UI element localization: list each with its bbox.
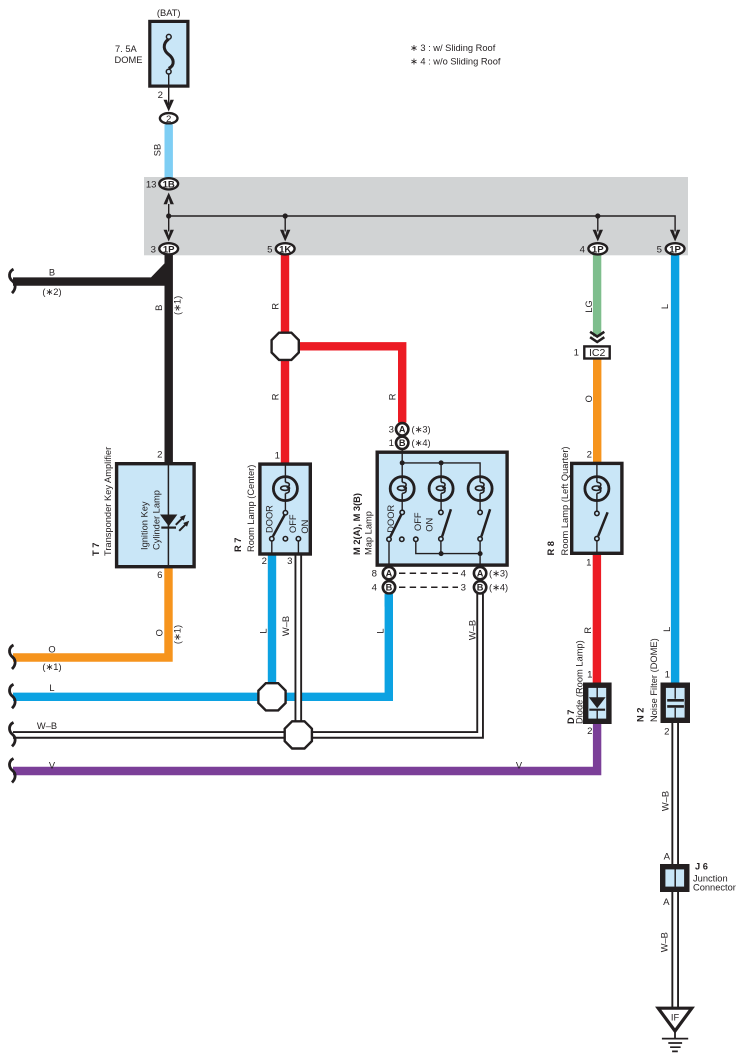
svg-text:O: O <box>584 395 594 402</box>
svg-text:(∗2): (∗2) <box>42 287 61 297</box>
svg-text:(∗1): (∗1) <box>172 296 182 315</box>
svg-text:1K: 1K <box>279 244 291 255</box>
svg-text:ON: ON <box>300 520 310 534</box>
svg-text:3: 3 <box>389 425 394 436</box>
svg-text:W–B: W–B <box>468 620 478 640</box>
svg-text:DOME: DOME <box>115 55 143 65</box>
svg-text:O: O <box>48 645 55 655</box>
svg-text:W–B: W–B <box>37 721 57 731</box>
svg-text:A: A <box>399 425 406 435</box>
svg-text:(∗1): (∗1) <box>42 662 61 672</box>
svg-text:SB: SB <box>153 144 163 156</box>
svg-text:B: B <box>386 583 393 593</box>
svg-text:1: 1 <box>275 451 280 462</box>
svg-text:Connector: Connector <box>693 883 736 893</box>
svg-text:∗ 3 : w/ Sliding Roof: ∗ 3 : w/ Sliding Roof <box>410 43 496 53</box>
svg-text:7. 5A: 7. 5A <box>115 44 138 54</box>
svg-text:V: V <box>49 760 56 770</box>
svg-text:Transponder Key Amplifier: Transponder Key Amplifier <box>103 447 113 556</box>
svg-text:Diode (Room Lamp): Diode (Room Lamp) <box>575 640 585 724</box>
svg-text:OFF: OFF <box>413 512 423 531</box>
svg-text:DOOR: DOOR <box>386 505 396 533</box>
svg-text:W–B: W–B <box>281 616 291 636</box>
svg-text:B: B <box>154 305 164 311</box>
svg-text:A: A <box>663 897 670 908</box>
svg-text:2: 2 <box>587 450 592 461</box>
svg-text:Ignition Key: Ignition Key <box>140 501 150 550</box>
svg-text:Map Lamp: Map Lamp <box>364 511 374 555</box>
svg-text:5: 5 <box>657 244 662 255</box>
svg-text:W–B: W–B <box>659 932 669 952</box>
svg-text:1P: 1P <box>592 244 604 255</box>
svg-text:2: 2 <box>664 727 669 738</box>
svg-text:A: A <box>664 852 671 863</box>
svg-text:OFF: OFF <box>288 514 298 533</box>
svg-text:2: 2 <box>587 726 592 737</box>
svg-text:3: 3 <box>461 583 466 594</box>
svg-text:8: 8 <box>372 569 377 580</box>
svg-text:(∗4): (∗4) <box>412 438 431 448</box>
svg-text:2: 2 <box>157 450 162 461</box>
svg-text:(∗3): (∗3) <box>412 425 431 435</box>
svg-text:LG: LG <box>584 300 594 312</box>
svg-text:3: 3 <box>151 244 156 255</box>
svg-text:B: B <box>399 438 406 448</box>
svg-text:R 8: R 8 <box>546 541 556 555</box>
svg-text:1: 1 <box>389 438 394 449</box>
svg-text:1: 1 <box>586 558 591 569</box>
svg-text:ON: ON <box>425 518 435 532</box>
svg-text:L: L <box>49 683 54 693</box>
svg-text:4: 4 <box>580 244 586 255</box>
svg-text:2: 2 <box>166 114 171 125</box>
svg-text:W–B: W–B <box>661 791 671 811</box>
svg-text:L: L <box>660 304 670 309</box>
svg-text:V: V <box>516 760 523 770</box>
svg-text:B: B <box>49 268 55 278</box>
svg-text:O: O <box>154 629 164 636</box>
svg-text:(BAT): (BAT) <box>157 8 181 18</box>
svg-text:L: L <box>662 627 672 632</box>
svg-text:1B: 1B <box>163 179 175 190</box>
svg-text:R: R <box>270 393 280 400</box>
svg-text:IF: IF <box>671 1013 680 1023</box>
svg-text:L: L <box>259 628 269 633</box>
svg-text:∗ 4 : w/o Sliding Roof: ∗ 4 : w/o Sliding Roof <box>410 57 501 67</box>
svg-text:6: 6 <box>157 570 162 581</box>
svg-text:2: 2 <box>158 90 163 101</box>
svg-text:L: L <box>375 628 385 633</box>
svg-text:N 2: N 2 <box>636 708 646 722</box>
svg-text:1P: 1P <box>163 244 175 255</box>
svg-text:M 2(A), M 3(B): M 2(A), M 3(B) <box>352 493 362 555</box>
svg-text:Room Lamp (Center): Room Lamp (Center) <box>246 465 256 552</box>
svg-text:R: R <box>270 303 280 310</box>
svg-text:1: 1 <box>665 670 670 681</box>
svg-text:4: 4 <box>372 583 378 594</box>
svg-text:13: 13 <box>146 179 157 190</box>
svg-text:Room Lamp (Left Quarter): Room Lamp (Left Quarter) <box>560 446 570 555</box>
svg-text:J 6: J 6 <box>695 861 708 871</box>
svg-text:Cylinder Lamp: Cylinder Lamp <box>152 490 162 550</box>
svg-text:4: 4 <box>461 569 467 580</box>
svg-text:R 7: R 7 <box>233 538 243 552</box>
svg-text:3: 3 <box>287 556 292 567</box>
svg-text:2: 2 <box>262 556 267 567</box>
svg-text:R: R <box>388 393 398 400</box>
svg-text:5: 5 <box>267 244 272 255</box>
svg-text:(∗3): (∗3) <box>489 569 508 579</box>
svg-text:DOOR: DOOR <box>265 505 275 533</box>
svg-text:1P: 1P <box>669 244 681 255</box>
svg-text:A: A <box>386 569 393 579</box>
svg-text:T 7: T 7 <box>91 543 101 556</box>
svg-text:(∗1): (∗1) <box>172 625 182 644</box>
svg-text:A: A <box>477 569 484 579</box>
svg-text:1: 1 <box>574 348 579 359</box>
svg-text:IC2: IC2 <box>589 347 606 359</box>
svg-text:B: B <box>477 583 484 593</box>
svg-text:R: R <box>583 627 593 634</box>
svg-text:1: 1 <box>587 670 592 681</box>
svg-text:(∗4): (∗4) <box>489 583 508 593</box>
svg-text:Noise Filter (DOME): Noise Filter (DOME) <box>649 638 659 722</box>
